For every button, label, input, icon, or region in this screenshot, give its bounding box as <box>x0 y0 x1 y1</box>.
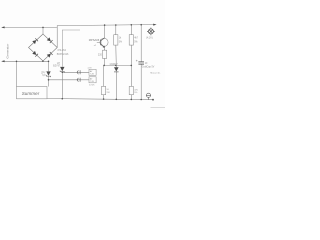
diode D5 <box>114 67 119 72</box>
svg-text:5%: 5% <box>119 42 122 44</box>
diode row2 cell <box>77 78 80 82</box>
arrow generator top <box>1 26 4 28</box>
wire R2 branch <box>130 25 132 100</box>
bridge rectifier B1 <box>29 34 58 61</box>
capacitor C1 <box>138 62 144 64</box>
resistor R3 emitter <box>103 50 107 58</box>
buzzer box <box>17 87 48 99</box>
svg-text:B6PC2416: B6PC2416 <box>57 53 69 56</box>
svg-text:Summer: Summer <box>22 91 40 96</box>
resistor R4 lower <box>129 86 133 94</box>
wire collector <box>104 25 106 38</box>
svg-text:(4,2V): (4,2V) <box>146 37 153 40</box>
wire AC top from generator <box>2 26 57 28</box>
resistor R1 <box>114 35 118 45</box>
lamp L1 <box>147 28 155 36</box>
wire emitter bend <box>104 47 106 50</box>
svg-text:1N4007: 1N4007 <box>109 63 118 66</box>
svg-text:MPSA06: MPSA06 <box>89 38 100 42</box>
wire capacitor C1 branch <box>140 25 142 100</box>
arrow generator bottom <box>1 60 4 62</box>
svg-text:220: 220 <box>98 54 103 57</box>
connector box row2 <box>89 77 96 83</box>
svg-text:470-264: 470-264 <box>57 49 66 52</box>
ground symbol <box>146 93 151 99</box>
zener diode D2 (left) <box>46 71 50 77</box>
wire base-node corner <box>62 30 80 67</box>
wire ground rail <box>47 99 153 100</box>
arrow rail output right <box>153 24 156 26</box>
diode bridge arm top-right <box>47 37 53 43</box>
diode bridge arm bottom-right <box>47 52 53 58</box>
svg-text:Generator: Generator <box>6 44 10 59</box>
diode row1 cell <box>77 70 80 74</box>
wire row1 <box>62 71 89 73</box>
node AC top junction <box>42 27 44 34</box>
svg-text:BZY97: BZY97 <box>53 66 61 68</box>
transistor Q1 <box>97 38 108 47</box>
page artifact bottom right <box>151 106 166 108</box>
connector box row1 <box>89 69 96 75</box>
diode bridge arm top-left <box>32 37 52 57</box>
svg-text:GoldCap 5V: GoldCap 5V <box>142 66 155 68</box>
wire zener D2 to buzzer <box>48 61 50 86</box>
wire bridge DC+ up to rail <box>57 25 153 48</box>
wire emitter chain <box>104 49 106 66</box>
wire lower resistor R5 <box>103 65 105 99</box>
diode bridge arm bottom-left <box>32 51 38 57</box>
wire diode D5 to ground <box>115 72 117 99</box>
wire AC bottom from generator <box>2 60 48 62</box>
wire row2 <box>49 79 90 81</box>
wire middle column down <box>61 71 63 98</box>
zener diode D3 (middle) <box>60 67 64 73</box>
resistor R2 <box>129 35 133 45</box>
wire buzzer left drop <box>16 61 18 86</box>
emitter arrowhead Q1 <box>103 46 105 48</box>
junction dots <box>16 24 154 101</box>
wire emitter node horizontal <box>105 64 132 66</box>
svg-text:Masse üb.: Masse üb. <box>150 72 160 74</box>
resistor R5 lower <box>102 86 106 94</box>
svg-text:5%: 5% <box>134 42 137 44</box>
svg-text:4,8V: 4,8V <box>88 67 93 69</box>
plus sign C1 <box>136 60 138 62</box>
svg-text:A 7DK: A 7DK <box>89 83 95 86</box>
svg-text:ZPY: ZPY <box>41 72 46 74</box>
wire R1 branch <box>115 25 118 67</box>
svg-text:5%: 5% <box>134 92 137 94</box>
